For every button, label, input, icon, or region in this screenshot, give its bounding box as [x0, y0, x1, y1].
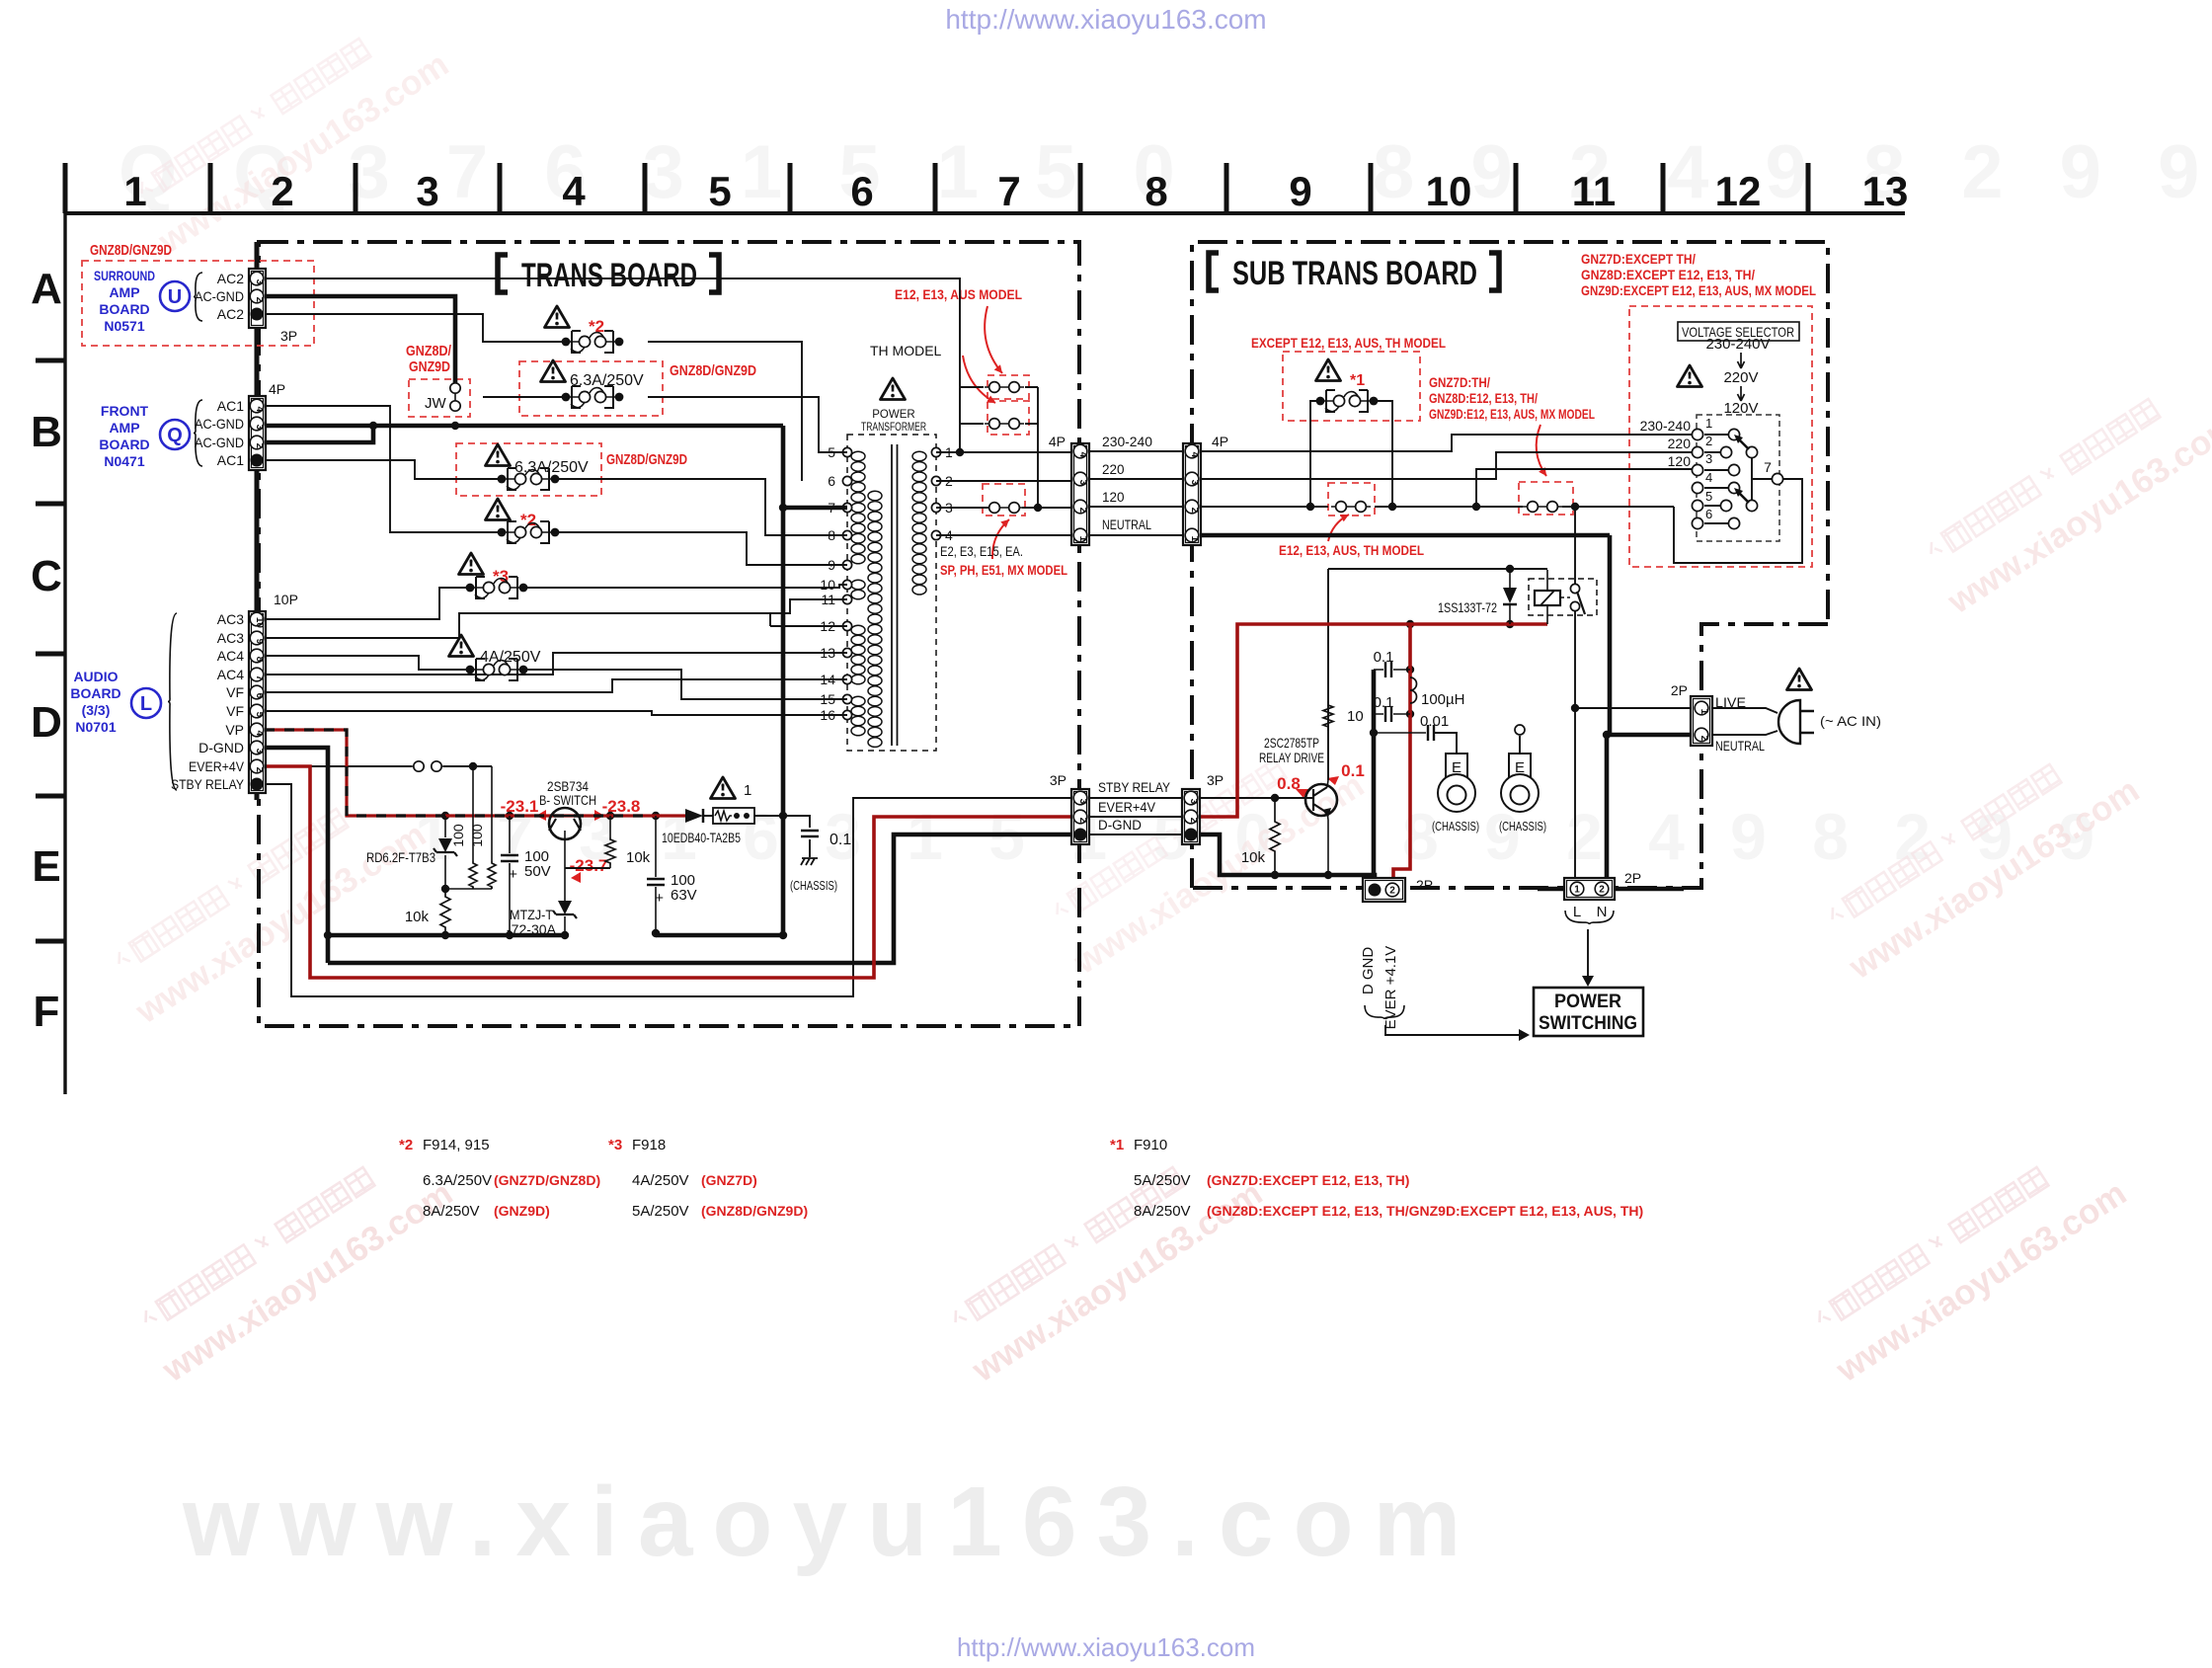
svg-text:GNZ8D/GNZ9D: GNZ8D/GNZ9D: [606, 451, 687, 468]
svg-text:AC2: AC2: [217, 306, 244, 322]
svg-text:5A/250V: 5A/250V: [632, 1203, 689, 1220]
svg-text:JW: JW: [425, 395, 447, 412]
svg-text:1: 1: [1705, 416, 1712, 431]
svg-text:220V: 220V: [1723, 369, 1758, 386]
svg-text:(~ AC IN): (~ AC IN): [1820, 713, 1881, 729]
svg-text:GNZ7D:EXCEPT TH/: GNZ7D:EXCEPT TH/: [1581, 251, 1696, 267]
svg-text:4: 4: [562, 168, 586, 214]
svg-text:6: 6: [850, 168, 873, 214]
svg-text:4A/250V: 4A/250V: [480, 649, 541, 666]
svg-text:SWITCHING: SWITCHING: [1539, 1013, 1637, 1034]
svg-text:4P: 4P: [1049, 434, 1066, 449]
svg-text:www.xiaoyu163.com: www.xiaoyu163.com: [182, 1467, 1480, 1577]
svg-text:2P: 2P: [1671, 682, 1688, 698]
svg-text:7: 7: [1764, 459, 1772, 475]
svg-text:3: 3: [416, 168, 438, 214]
svg-text:2P: 2P: [1416, 877, 1433, 893]
svg-text:FRONT: FRONT: [101, 403, 149, 419]
svg-text:0.1: 0.1: [1341, 761, 1365, 780]
svg-text:N: N: [1597, 904, 1608, 920]
svg-text:8: 8: [1145, 168, 1167, 214]
svg-text:3: 3: [254, 749, 265, 755]
svg-text:2: 2: [1698, 736, 1709, 742]
svg-text:4: 4: [1077, 452, 1088, 458]
svg-text:3P: 3P: [1050, 772, 1066, 788]
svg-text:AMP: AMP: [109, 420, 139, 436]
svg-text:AC3: AC3: [217, 611, 244, 627]
svg-text:3: 3: [1077, 480, 1088, 486]
svg-text:*2: *2: [399, 1137, 413, 1153]
svg-text:3: 3: [1077, 799, 1088, 805]
svg-text:GNZ8D/GNZ9D: GNZ8D/GNZ9D: [670, 362, 756, 379]
svg-text:50V: 50V: [524, 863, 551, 880]
svg-text:3: 3: [1188, 799, 1199, 805]
svg-text:230-240: 230-240: [1102, 435, 1152, 449]
svg-text:STBY RELAY: STBY RELAY: [171, 776, 245, 792]
svg-text:AUDIO: AUDIO: [73, 669, 118, 684]
svg-text:5: 5: [708, 168, 731, 214]
svg-text:2: 2: [1077, 818, 1088, 824]
svg-text:10: 10: [820, 577, 835, 593]
svg-text:*3: *3: [608, 1137, 622, 1153]
svg-text:(CHASSIS): (CHASSIS): [1499, 820, 1546, 834]
svg-text:230-240: 230-240: [1640, 418, 1692, 434]
svg-text:AC1: AC1: [217, 398, 244, 414]
svg-text:2: 2: [1389, 885, 1395, 896]
svg-text:10: 10: [1426, 168, 1472, 214]
svg-text:GNZ8D/: GNZ8D/: [406, 343, 452, 359]
svg-text:E12, E13, AUS, TH MODEL: E12, E13, AUS, TH MODEL: [1279, 542, 1424, 558]
svg-text:EXCEPT E12, E13, AUS, TH MODEL: EXCEPT E12, E13, AUS, TH MODEL: [1251, 335, 1446, 351]
svg-text:220: 220: [1102, 462, 1125, 477]
svg-text:U: U: [168, 286, 182, 308]
svg-text:*1: *1: [1110, 1137, 1124, 1153]
svg-text:POWER: POWER: [872, 409, 914, 421]
svg-text:100µH: 100µH: [1421, 691, 1465, 708]
svg-text:9: 9: [254, 639, 265, 645]
svg-text:E12, E13, AUS MODEL: E12, E13, AUS MODEL: [895, 286, 1022, 302]
svg-text:2: 2: [1599, 884, 1605, 895]
svg-text:5: 5: [254, 712, 265, 718]
svg-text:2: 2: [254, 443, 265, 449]
svg-text:4P: 4P: [269, 381, 285, 397]
svg-text:8A/250V: 8A/250V: [423, 1203, 480, 1220]
svg-text:10P: 10P: [274, 592, 298, 607]
svg-text:(GNZ7D/GNZ8D): (GNZ7D/GNZ8D): [494, 1172, 600, 1188]
svg-text:NEUTRAL: NEUTRAL: [1102, 517, 1151, 532]
svg-text:C: C: [31, 552, 62, 600]
svg-text:BOARD: BOARD: [70, 685, 120, 701]
svg-text:2: 2: [254, 297, 265, 303]
svg-text:GNZ9D:E12, E13, AUS, MX MODEL: GNZ9D:E12, E13, AUS, MX MODEL: [1429, 406, 1595, 422]
svg-text:TH MODEL: TH MODEL: [870, 343, 942, 358]
svg-text:F918: F918: [632, 1137, 666, 1153]
svg-text:N0471: N0471: [104, 453, 144, 469]
svg-text:13: 13: [1862, 168, 1909, 214]
svg-text:2: 2: [1189, 508, 1200, 514]
svg-text:AC4: AC4: [217, 648, 244, 664]
svg-text:GNZ8D:E12, E13, TH/: GNZ8D:E12, E13, TH/: [1429, 390, 1538, 406]
svg-text:(GNZ7D): (GNZ7D): [701, 1172, 757, 1188]
svg-text:10k: 10k: [626, 849, 651, 866]
svg-text:4: 4: [254, 731, 265, 737]
svg-text:http://www.xiaoyu163.com: http://www.xiaoyu163.com: [957, 1632, 1255, 1662]
svg-text:2P: 2P: [1624, 870, 1641, 886]
svg-text:BOARD: BOARD: [99, 301, 149, 317]
svg-text:6.3A/250V: 6.3A/250V: [423, 1172, 492, 1189]
svg-text:SP, PH, E51, MX MODEL: SP, PH, E51, MX MODEL: [940, 563, 1067, 578]
svg-text:-23.7: -23.7: [570, 856, 608, 875]
svg-text:AC-GND: AC-GND: [195, 416, 244, 432]
svg-text:(GNZ8D/GNZ9D): (GNZ8D/GNZ9D): [701, 1203, 808, 1219]
svg-text:3P: 3P: [1207, 772, 1224, 788]
svg-text:AC1: AC1: [217, 452, 244, 468]
svg-text:120: 120: [1102, 490, 1125, 505]
svg-text:E: E: [32, 842, 60, 891]
svg-text:A: A: [31, 265, 62, 313]
svg-text:F910: F910: [1134, 1137, 1167, 1153]
svg-text:L: L: [1573, 904, 1581, 920]
svg-text:D-GND: D-GND: [198, 740, 244, 755]
svg-text:1SS133T-72: 1SS133T-72: [1438, 599, 1497, 615]
svg-text:RD6.2F-T7B3: RD6.2F-T7B3: [366, 849, 435, 865]
svg-text:5: 5: [1705, 489, 1712, 504]
svg-text:SUB TRANS BOARD: SUB TRANS BOARD: [1232, 255, 1477, 292]
svg-text:VF: VF: [226, 684, 244, 700]
svg-text:F914, 915: F914, 915: [423, 1137, 490, 1153]
svg-text:100: 100: [450, 824, 466, 847]
svg-text:GNZ8D/GNZ9D: GNZ8D/GNZ9D: [90, 242, 172, 259]
svg-text:8 9 2 4 9 8 2 9 9: 8 9 2 4 9 8 2 9 9: [1373, 130, 2212, 214]
svg-text:4: 4: [1189, 452, 1200, 458]
svg-text:D: D: [31, 698, 62, 747]
svg-text:3P: 3P: [280, 328, 297, 344]
svg-text:*1: *1: [1350, 372, 1365, 389]
svg-text:1: 1: [1698, 709, 1709, 715]
svg-text:TRANSFORMER: TRANSFORMER: [861, 422, 926, 434]
svg-text:5A/250V: 5A/250V: [1134, 1172, 1191, 1189]
svg-text:GNZ7D:TH/: GNZ7D:TH/: [1429, 374, 1490, 390]
svg-text:2: 2: [1705, 434, 1712, 448]
svg-text:100: 100: [469, 824, 485, 847]
svg-text:1: 1: [744, 782, 751, 799]
svg-text:AMP: AMP: [109, 284, 139, 300]
svg-text:(GNZ8D:EXCEPT E12, E13, TH/GNZ: (GNZ8D:EXCEPT E12, E13, TH/GNZ9D:EXCEPT …: [1207, 1203, 1643, 1219]
svg-text:1: 1: [1189, 536, 1200, 542]
svg-text:10EDB40-TA2B5: 10EDB40-TA2B5: [662, 830, 741, 845]
svg-text:2: 2: [1077, 508, 1088, 514]
svg-text:2: 2: [254, 767, 265, 773]
svg-text:B- SWITCH: B- SWITCH: [539, 792, 596, 808]
svg-text:-23.1: -23.1: [501, 797, 539, 816]
svg-text:AC2: AC2: [217, 271, 244, 286]
svg-text:VP: VP: [225, 722, 244, 738]
svg-text:7: 7: [997, 168, 1020, 214]
svg-text:F: F: [34, 988, 60, 1036]
svg-text:120: 120: [1668, 453, 1692, 469]
svg-text:1: 1: [1574, 884, 1580, 895]
svg-text:NEUTRAL: NEUTRAL: [1715, 738, 1765, 754]
svg-text:9: 9: [1289, 168, 1311, 214]
svg-text:3: 3: [1705, 451, 1712, 466]
svg-text:AC-GND: AC-GND: [195, 288, 244, 304]
svg-text:AC4: AC4: [217, 667, 244, 682]
svg-text:63V: 63V: [671, 887, 697, 904]
svg-text:3: 3: [254, 279, 265, 285]
svg-text:10: 10: [1347, 708, 1364, 725]
svg-text:1: 1: [1077, 536, 1088, 542]
svg-text:Q: Q: [167, 425, 183, 446]
svg-text:(3/3): (3/3): [82, 702, 111, 718]
svg-text:11: 11: [1572, 168, 1616, 214]
svg-text:GNZ8D:EXCEPT E12, E13, TH/: GNZ8D:EXCEPT E12, E13, TH/: [1581, 267, 1755, 282]
svg-text:4P: 4P: [1212, 434, 1228, 449]
svg-text:3: 3: [254, 425, 265, 431]
svg-text:4A/250V: 4A/250V: [632, 1172, 689, 1189]
svg-text:EVER+4V: EVER+4V: [189, 758, 245, 774]
svg-text:220: 220: [1668, 436, 1692, 451]
svg-text:1: 1: [123, 168, 146, 214]
svg-text:6: 6: [1705, 507, 1712, 521]
svg-text:MTZJ-T: MTZJ-T: [510, 907, 553, 922]
svg-text:0.1: 0.1: [829, 832, 851, 848]
svg-text:(GNZ9D): (GNZ9D): [494, 1203, 550, 1219]
svg-text:N0571: N0571: [104, 318, 144, 334]
svg-text:10: 10: [254, 617, 265, 629]
svg-text:7: 7: [254, 675, 265, 681]
svg-text:STBY RELAY: STBY RELAY: [1098, 780, 1170, 795]
svg-text:L: L: [140, 693, 152, 715]
svg-text:8: 8: [254, 657, 265, 663]
svg-text:(GNZ7D:EXCEPT E12, E13, TH): (GNZ7D:EXCEPT E12, E13, TH): [1207, 1172, 1409, 1188]
svg-text:2SC2785TP: 2SC2785TP: [1264, 735, 1319, 751]
svg-text:E2, E3, E15, EA.: E2, E3, E15, EA.: [940, 544, 1023, 559]
svg-text:AC-GND: AC-GND: [195, 435, 244, 450]
svg-text:230-240V: 230-240V: [1705, 336, 1770, 353]
svg-text:AC3: AC3: [217, 630, 244, 646]
svg-text:N0701: N0701: [75, 719, 116, 735]
svg-text:4: 4: [1705, 470, 1712, 485]
svg-text:D-GND: D-GND: [1098, 818, 1142, 833]
svg-text:2: 2: [1188, 818, 1199, 824]
svg-text:B: B: [31, 408, 62, 456]
svg-text:VF: VF: [226, 703, 244, 719]
svg-text:GNZ9D:EXCEPT E12, E13, AUS, MX: GNZ9D:EXCEPT E12, E13, AUS, MX MODEL: [1581, 282, 1816, 298]
svg-text:6: 6: [254, 693, 265, 699]
svg-text:http://www.xiaoyu163.com: http://www.xiaoyu163.com: [945, 4, 1266, 35]
svg-text:4: 4: [254, 407, 265, 413]
svg-text:D GND: D GND: [1360, 947, 1377, 995]
svg-text:EVER+4V: EVER+4V: [1098, 800, 1155, 815]
svg-text:3: 3: [1189, 480, 1200, 486]
svg-text:(CHASSIS): (CHASSIS): [1432, 820, 1479, 834]
svg-text:TRANS BOARD: TRANS BOARD: [521, 257, 697, 294]
svg-text:RELAY DRIVE: RELAY DRIVE: [1259, 750, 1324, 765]
svg-text:SURROUND: SURROUND: [94, 268, 155, 283]
svg-text:BOARD: BOARD: [99, 437, 149, 452]
svg-text:2: 2: [271, 168, 293, 214]
svg-text:(CHASSIS): (CHASSIS): [790, 879, 837, 893]
svg-text:10k: 10k: [405, 909, 430, 925]
svg-text:POWER: POWER: [1554, 992, 1621, 1012]
svg-text:GNZ9D: GNZ9D: [409, 358, 450, 375]
svg-text:8A/250V: 8A/250V: [1134, 1203, 1191, 1220]
svg-text:10k: 10k: [1241, 849, 1266, 866]
svg-text:12: 12: [1715, 168, 1762, 214]
svg-text:6: 6: [828, 473, 835, 489]
